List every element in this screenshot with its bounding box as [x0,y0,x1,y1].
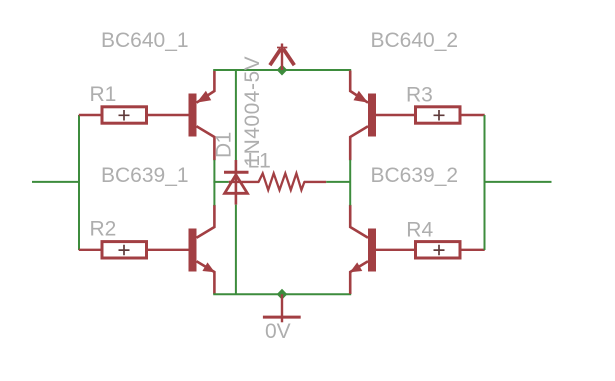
svg-text:BC640_2: BC640_2 [371,29,459,52]
transistor BC639_1 (NPN, bottom-left) [189,205,215,294]
transistor BC639_2 (NPN, bottom-right) [350,205,376,294]
wire: top rail [213,69,351,71]
wire: left output node mid segment (green) [213,160,215,206]
arrow: BC639_1 emitter (points outward) [202,262,214,272]
wire: mid wire L1 left pin (red) [229,181,259,183]
wire: diode bottom branch [235,205,237,295]
transistor BC640_1 (PNP, top-left) [189,71,215,161]
wire: diode top branch [235,69,237,160]
resistor R4 [376,242,485,258]
resistor R2 [79,242,189,258]
power supply arrow symbol V+ [270,44,294,71]
wire: mid wire L1 right pin (red) [304,181,326,183]
svg-text:BC639_2: BC639_2 [371,164,459,187]
arrow: BC640_1 emitter (points into bar) [197,91,212,103]
arrow: BC639_2 emitter [350,262,362,272]
wire: input stub left [32,181,79,183]
svg-text:0V: 0V [265,320,291,343]
arrow: BC640_2 emitter [354,91,369,103]
diode D1 body [224,160,249,205]
svg-text:BC640_1: BC640_1 [101,29,189,52]
svg-text:R3: R3 [406,84,433,107]
svg-text:L1: L1 [248,150,271,173]
wire: bottom rail [213,293,351,295]
resistor R3 [376,107,485,123]
svg-text:BC639_1: BC639_1 [101,164,189,187]
inductor/resistor L1 zigzag [259,173,305,190]
svg-text:R2: R2 [90,218,117,241]
wire: right bus vertical [484,115,486,250]
svg-text:D1: D1 [213,132,236,158]
wire: left input bus vertical [78,115,80,250]
wire: mid wire left green [213,181,228,183]
svg-text:R4: R4 [406,219,433,242]
svg-text:R1: R1 [90,83,117,106]
junction: top rail power node [277,65,288,76]
resistor R1 [79,107,189,123]
transistor BC640_2 (PNP, top-right) [350,71,376,161]
wire: output stub right [485,181,552,183]
wire: mid wire right green [326,181,351,183]
wire: right output node mid segment (green) [349,160,351,206]
junction: bottom rail ground node [277,289,288,300]
ground symbol 0V [263,294,301,322]
